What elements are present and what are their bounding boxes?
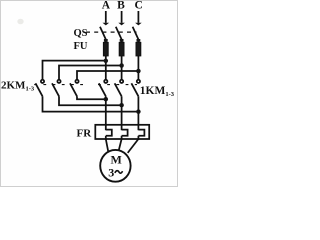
junction dot return to C (136, 109, 141, 114)
QS mechanical linkage (dashed) (86, 31, 137, 33)
fuse FU phase C (136, 42, 141, 57)
QS terminal pole A (104, 39, 108, 42)
fuse FU phase B (119, 42, 124, 57)
supply arrow phase A (103, 11, 110, 25)
motor M circle (100, 150, 130, 182)
junction dot at C / H3 (136, 69, 141, 74)
2KM contact 3 (70, 80, 79, 97)
wire phase B vertical (1KM to FR) (121, 96, 123, 130)
1KM contact phase C (131, 80, 140, 97)
wire 2KM column 1 lower + return to C (43, 96, 139, 111)
FR heater element phase C (138, 130, 144, 136)
junction dot return to B (119, 103, 124, 108)
wire phase A vertical (1KM to FR) (105, 96, 107, 130)
motor tilde (115, 171, 123, 174)
QS terminal pole B (120, 39, 124, 42)
1KM mechanical linkage (dashed) (98, 84, 137, 86)
2KM mechanical linkage (dashed) (34, 84, 84, 86)
wire phase C vertical (fuse to 1KM contact) (137, 56, 139, 80)
thermal relay FR box (95, 125, 149, 139)
wire to motor phase C (128, 139, 139, 153)
junction dot return to A (104, 97, 109, 102)
wire 2KM column 2 lower + return to B (59, 96, 122, 105)
wire phase A (FR exit) (105, 136, 107, 140)
wire branch H1 (node A to 2KM column 1) (43, 61, 106, 80)
wire to motor phase B (119, 139, 122, 151)
scan smudge (faint) (17, 19, 23, 25)
wire branch H2 (node B to 2KM column 2) (59, 66, 122, 80)
wire phase C vertical (1KM to FR) (137, 96, 139, 130)
QS blade pole A (100, 27, 106, 40)
wire phase B vertical (fuse to 1KM contact) (121, 56, 123, 80)
wire phase C (FR exit) (137, 136, 139, 140)
junction dot at B / H2 (119, 63, 124, 68)
wire 2KM column 3 lower + return to A (77, 96, 106, 99)
2KM contact 2 (52, 80, 61, 97)
1KM contact phase B (115, 80, 124, 97)
2KM contact 1 (36, 80, 45, 97)
wire phase A vertical (fuse to 1KM contact) (105, 56, 107, 80)
FR heater element phase A (106, 130, 112, 136)
supply arrow phase C (135, 11, 142, 25)
wire branch H3 (node C to 2KM column 3) (77, 71, 138, 80)
FR heater element phase B (122, 130, 128, 136)
fuse FU phase A (103, 42, 108, 57)
QS blade pole C (133, 27, 139, 40)
junction dot at A / H1 (104, 59, 109, 64)
1KM contact phase A (99, 80, 108, 97)
wire phase B (FR exit) (121, 136, 123, 140)
wire to motor phase A (106, 139, 109, 152)
outer faint frame (decorative) (0, 0, 178, 187)
QS blade pole B (116, 27, 122, 40)
QS terminal pole C (137, 39, 141, 42)
supply arrow phase B (118, 11, 125, 25)
